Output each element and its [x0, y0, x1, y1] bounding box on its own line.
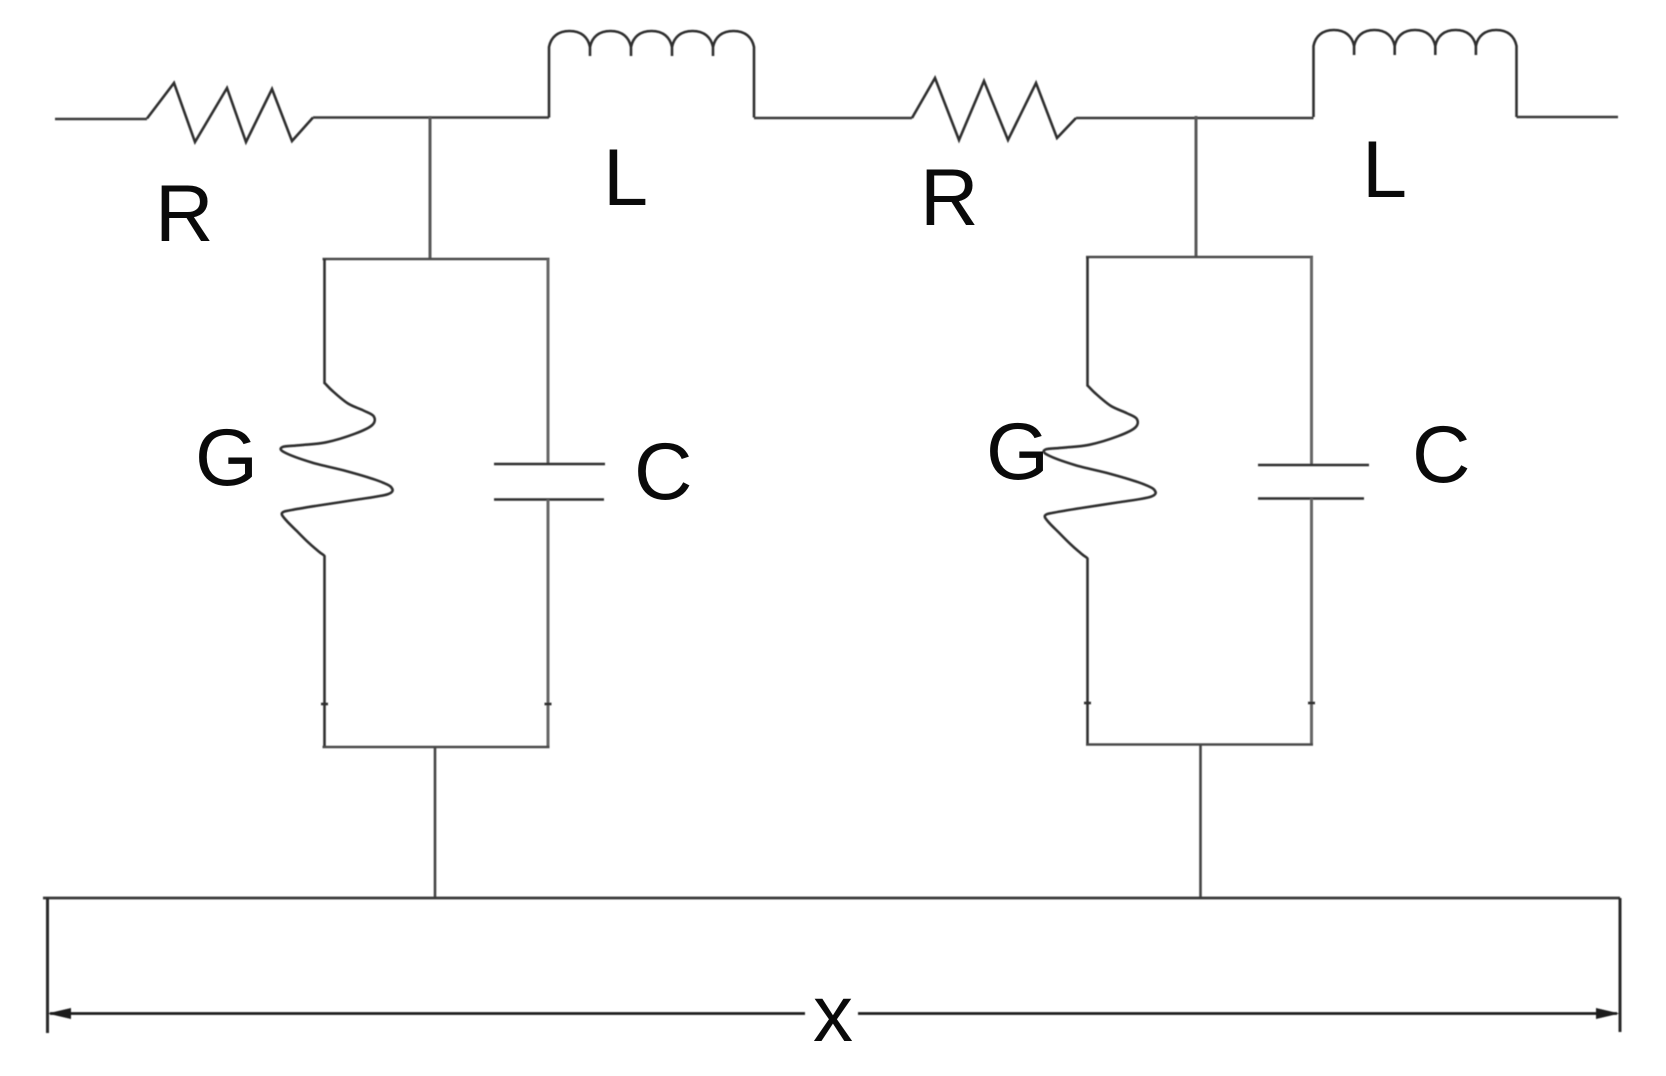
- node junction 1: [429, 116, 432, 259]
- svg-text:L: L: [1362, 125, 1407, 215]
- svg-text:L: L: [603, 133, 648, 223]
- svg-text:R: R: [920, 153, 979, 243]
- dimension extension line left: [46, 898, 49, 1033]
- wire block1 bottom bar: [323, 746, 550, 749]
- tick marks block2: [1084, 702, 1315, 705]
- wire block1 top bar: [323, 258, 550, 261]
- conductance G1: [281, 259, 393, 747]
- svg-text:G: G: [195, 413, 258, 503]
- inductor L1: [549, 31, 754, 118]
- svg-text:C: C: [1412, 410, 1471, 500]
- capacitor C2: [1258, 257, 1369, 745]
- resistor R1: [147, 83, 313, 142]
- svg-text:R: R: [155, 169, 214, 259]
- wire block2 top bar: [1086, 256, 1313, 259]
- dimension arrow line left segment: [50, 1012, 805, 1015]
- node junction 2: [1195, 116, 1198, 257]
- wire: [1076, 117, 1314, 120]
- tick marks block1: [321, 703, 552, 706]
- wire: [313, 116, 549, 119]
- inductor L2: [1314, 30, 1517, 117]
- svg-text:C: C: [634, 427, 693, 517]
- ground rail: [43, 897, 1620, 900]
- svg-text:x: x: [813, 969, 853, 1058]
- wire bottom stub 2: [1199, 745, 1202, 898]
- wire bottom stub 1: [434, 747, 437, 898]
- resistor R2: [912, 78, 1076, 140]
- wire: [754, 117, 912, 120]
- wire: [55, 118, 147, 121]
- dimension extension line right: [1619, 898, 1622, 1032]
- wire: [1517, 116, 1619, 119]
- dimension arrow line right segment: [858, 1012, 1617, 1015]
- wire block2 bottom bar: [1086, 743, 1313, 746]
- capacitor C1: [494, 259, 605, 747]
- conductance G2: [1044, 257, 1156, 745]
- svg-text:G: G: [986, 407, 1049, 497]
